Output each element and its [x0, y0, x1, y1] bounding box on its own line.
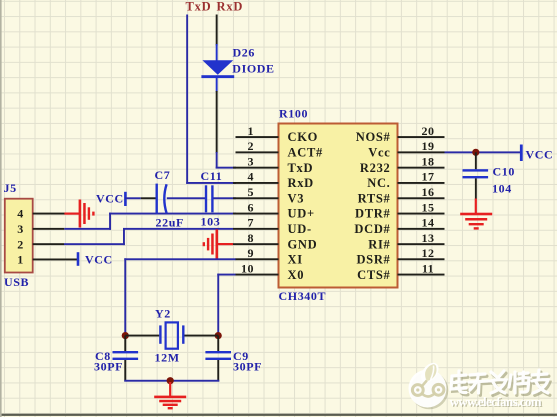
svg-text:VCC: VCC	[96, 192, 124, 206]
wire diode anode lead	[216, 44, 218, 61]
svg-text:104: 104	[492, 182, 512, 196]
svg-text:17: 17	[422, 170, 435, 184]
wire RxD vertical top (black)	[216, 15, 218, 46]
pin 10 stub	[236, 274, 279, 276]
svg-text:4: 4	[17, 207, 24, 221]
wire VCC lead row5	[125, 197, 141, 199]
svg-text:ACT#: ACT#	[288, 146, 323, 160]
svg-text:7: 7	[248, 216, 255, 230]
power VCC bar at J5 pin1	[77, 252, 80, 266]
svg-text:8: 8	[248, 231, 255, 245]
pin 1 stub	[236, 136, 279, 138]
wire C10 upper vertical	[475, 152, 477, 169]
capacitor C9	[205, 351, 231, 360]
svg-text:DIODE: DIODE	[232, 62, 274, 76]
svg-text:10: 10	[241, 262, 254, 276]
svg-text:30PF: 30PF	[94, 360, 123, 374]
pin 9 stub	[236, 258, 279, 260]
svg-text:C10: C10	[493, 165, 515, 179]
svg-text:J5: J5	[4, 181, 17, 195]
pin 3 stub	[233, 167, 279, 169]
pin 18 stub	[398, 167, 445, 169]
svg-text:RxD: RxD	[217, 0, 244, 14]
svg-text:CTS#: CTS#	[357, 268, 390, 282]
wire TxD vertical	[186, 15, 188, 184]
svg-text:22uF: 22uF	[156, 216, 184, 230]
pin 13 stub	[398, 243, 445, 245]
svg-text:CKO: CKO	[288, 130, 319, 144]
svg-text:CH340T: CH340T	[279, 289, 327, 303]
svg-text:R232: R232	[360, 161, 391, 175]
node junction bottom center	[167, 377, 174, 384]
svg-text:2: 2	[248, 139, 255, 153]
wire C10 lower vertical	[475, 178, 477, 199]
diode D26	[201, 60, 234, 92]
svg-text:DCD#: DCD#	[354, 222, 390, 236]
connector J5 body	[5, 199, 33, 273]
svg-text:DTR#: DTR#	[355, 207, 390, 221]
capacitor C7 (polarized)	[156, 184, 167, 214]
svg-text:V3: V3	[288, 191, 305, 205]
svg-text:14: 14	[422, 216, 435, 230]
svg-text:TxD: TxD	[186, 0, 212, 14]
pin 19 stub	[398, 151, 445, 153]
svg-text:R100: R100	[279, 107, 308, 121]
svg-text:12: 12	[422, 246, 435, 260]
watermark elecfans logo	[409, 360, 449, 410]
wire below diode blue to row3	[216, 152, 218, 169]
svg-text:RxD: RxD	[288, 176, 314, 190]
svg-text:9: 9	[248, 246, 255, 260]
ground G1 (earth, pointing right, at J5 pin 4)	[64, 200, 94, 228]
capacitor C10	[463, 169, 489, 178]
pin 20 stub	[398, 136, 445, 138]
ground G3 (earth at bottom center)	[154, 382, 186, 409]
wire bottom row	[124, 380, 219, 382]
node junction right crystal	[215, 332, 222, 339]
svg-text:TxD: TxD	[288, 161, 314, 175]
capacitor C11	[205, 185, 214, 212]
wire J5 pin3 blue run to jog	[64, 228, 111, 230]
wire C9 upper vertical	[217, 336, 219, 352]
svg-text:C11: C11	[201, 169, 223, 183]
pin 2 stub	[236, 151, 279, 153]
wire jog up to row7	[123, 229, 125, 245]
wire crystal row left	[125, 335, 159, 337]
svg-text:19: 19	[422, 139, 435, 153]
wire J5 pin2 blue run	[64, 243, 125, 245]
pin 12 stub	[398, 258, 445, 260]
wire C9 lower vertical	[217, 360, 219, 382]
svg-text:30PF: 30PF	[233, 360, 262, 374]
svg-text:USB: USB	[4, 275, 29, 289]
svg-text:18: 18	[422, 154, 435, 168]
capacitor C8	[113, 351, 139, 360]
svg-text:RI#: RI#	[368, 237, 390, 251]
svg-text:Y2: Y2	[155, 307, 171, 321]
svg-text:20: 20	[422, 124, 435, 138]
svg-text:13: 13	[422, 231, 435, 245]
pin 11 stub	[398, 274, 445, 276]
svg-text:www.elecfans.com: www.elecfans.com	[450, 394, 542, 409]
svg-text:D26: D26	[233, 46, 255, 60]
pin 17 stub	[398, 182, 445, 184]
svg-text:NC.: NC.	[367, 176, 390, 190]
wire row7 to pin 7	[123, 228, 233, 230]
svg-text:5: 5	[248, 185, 255, 199]
wire crystal right vertical	[217, 274, 219, 336]
svg-text:12M: 12M	[155, 351, 180, 365]
node junction left crystal	[122, 332, 129, 339]
wire J5 pin2 segment	[33, 243, 64, 245]
wire C8 lower vertical	[124, 360, 126, 382]
svg-text:103: 103	[201, 215, 221, 229]
pin 14 stub	[398, 228, 445, 230]
svg-text:C7: C7	[155, 168, 171, 182]
ground G4 (earth below C10)	[460, 199, 492, 230]
wire row10 horizontal	[217, 274, 236, 276]
svg-text:RTS#: RTS#	[358, 191, 391, 205]
svg-text:DSR#: DSR#	[356, 253, 390, 267]
svg-text:VCC: VCC	[526, 148, 554, 162]
ground G2 (earth, pointing left, at pin 8)	[203, 229, 234, 258]
svg-text:3: 3	[248, 154, 255, 168]
svg-text:15: 15	[422, 200, 435, 214]
wire row5 between C7 and C11	[167, 197, 206, 199]
pin 6 stub	[233, 213, 279, 215]
svg-text:UD+: UD+	[288, 207, 315, 221]
wire row6 to pin 6	[109, 213, 236, 215]
svg-text:UD-: UD-	[288, 222, 312, 236]
wire TxD row4 horizontal to pin 4	[186, 182, 236, 184]
svg-text:1: 1	[17, 253, 24, 267]
power VCC bar right	[520, 145, 523, 162]
pin 4 stub	[233, 182, 279, 184]
IC U1 body R100 CH340T	[279, 124, 398, 288]
svg-text:GND: GND	[288, 237, 318, 251]
svg-text:6: 6	[248, 200, 255, 214]
pin 8 stub	[233, 243, 279, 245]
crystal Y2	[159, 322, 184, 348]
wire J5 pin3 segment	[33, 228, 65, 230]
svg-text:2: 2	[17, 237, 24, 251]
wire J5 pin1 to VCC	[33, 259, 78, 261]
node junction pin19	[472, 149, 479, 156]
pin 5 stub	[233, 197, 279, 199]
pin 7 stub	[233, 228, 279, 230]
svg-text:NOS#: NOS#	[356, 130, 391, 144]
svg-text:Vcc: Vcc	[368, 146, 390, 160]
wire row5 black segment to C7	[141, 197, 156, 199]
wire crystal row right	[185, 335, 219, 337]
wire row5 C11 to pin 5	[213, 197, 235, 199]
svg-text:1: 1	[248, 124, 255, 138]
wire crystal left vertical	[124, 258, 126, 336]
wire pin19 to VCC	[445, 151, 522, 153]
wire row9 crystal branch horizontal	[124, 258, 236, 260]
svg-text:X0: X0	[288, 268, 305, 282]
power VCC bar row5	[124, 192, 127, 206]
wire J5 pin4 to ground	[33, 213, 65, 215]
pin 16 stub	[398, 197, 445, 199]
pin 15 stub	[398, 213, 445, 215]
wire C8 upper vertical	[124, 336, 126, 352]
sheet bottom border	[0, 414, 557, 416]
wire row3 horizontal to pin 3	[216, 167, 236, 169]
svg-text:4: 4	[248, 170, 255, 184]
svg-text:3: 3	[17, 222, 24, 236]
watermark chinese text	[453, 372, 550, 395]
svg-text:16: 16	[422, 185, 435, 199]
wire below diode (black)	[216, 91, 218, 153]
svg-text:11: 11	[422, 262, 434, 276]
svg-text:VCC: VCC	[85, 253, 113, 267]
wire jog up to row6	[109, 213, 111, 230]
svg-text:XI: XI	[288, 253, 303, 267]
